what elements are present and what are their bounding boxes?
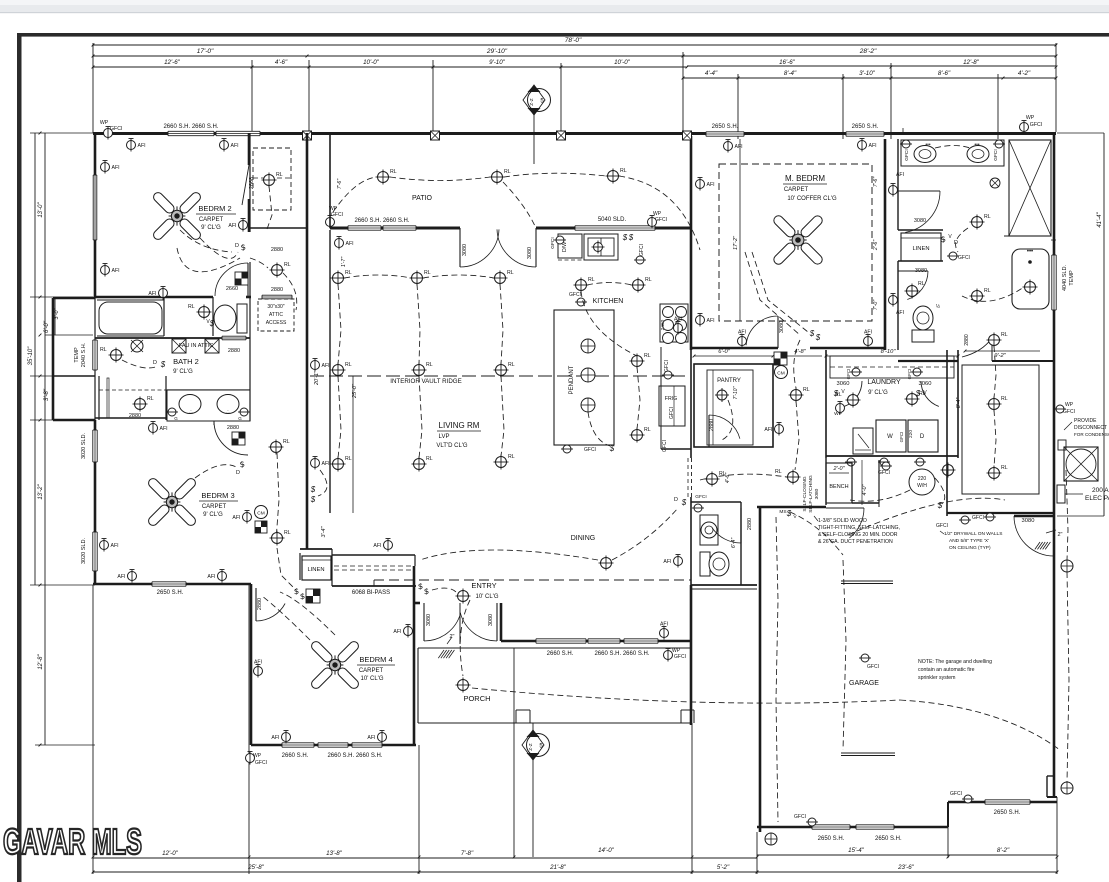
- svg-text:GFCI: GFCI: [569, 292, 581, 298]
- svg-text:17'-0": 17'-0": [197, 48, 214, 55]
- svg-text:BEDRM 2: BEDRM 2: [198, 204, 231, 213]
- svg-text:RL: RL: [504, 169, 511, 175]
- svg-text:GFCI: GFCI: [639, 244, 645, 256]
- svg-text:$: $: [622, 233, 628, 242]
- svg-text:$: $: [937, 501, 943, 510]
- svg-text:AFI: AFI: [232, 515, 240, 521]
- svg-text:RL: RL: [276, 172, 283, 178]
- svg-text:21'-8": 21'-8": [549, 864, 567, 871]
- svg-text:GFCI: GFCI: [255, 760, 267, 766]
- svg-text:3080: 3080: [1022, 518, 1035, 524]
- svg-text:AFI: AFI: [228, 223, 236, 229]
- svg-text:4'-0": 4'-0": [862, 483, 868, 495]
- svg-text:6068 BI-PASS: 6068 BI-PASS: [352, 590, 390, 596]
- svg-text:AFI: AFI: [322, 363, 330, 369]
- svg-text:ATTIC: ATTIC: [269, 312, 283, 318]
- svg-text:2650 S.H.: 2650 S.H.: [994, 810, 1021, 816]
- svg-text:10'-0": 10'-0": [614, 59, 631, 66]
- svg-text:•••: •••: [1027, 249, 1033, 255]
- svg-text:RL: RL: [390, 169, 397, 175]
- svg-text:$: $: [786, 509, 792, 518]
- svg-text:10' CL'G: 10' CL'G: [361, 676, 384, 682]
- svg-text:4'-4": 4'-4": [705, 70, 718, 77]
- svg-text:$: $: [809, 329, 815, 338]
- svg-text:∴: ∴: [226, 409, 229, 415]
- svg-text:5'-2": 5'-2": [717, 864, 730, 871]
- svg-text:20'-1": 20'-1": [314, 370, 320, 386]
- svg-text:5040 SLD.: 5040 SLD.: [598, 217, 627, 223]
- svg-text:2660 S.H. 2660 S.H.: 2660 S.H. 2660 S.H.: [594, 651, 649, 657]
- svg-text:2660 S.H.: 2660 S.H.: [547, 651, 574, 657]
- svg-text:INTERIOR VAULT RIDGE: INTERIOR VAULT RIDGE: [390, 378, 462, 385]
- svg-text:AFI: AFI: [148, 291, 156, 297]
- svg-text:30"x30": 30"x30": [267, 304, 284, 310]
- svg-text:•••: •••: [974, 142, 980, 148]
- svg-text:RL: RL: [918, 281, 925, 287]
- svg-text:RL: RL: [984, 214, 991, 220]
- svg-text:3080: 3080: [779, 321, 785, 333]
- svg-text:D: D: [920, 434, 925, 440]
- svg-text:2880: 2880: [257, 598, 263, 610]
- svg-text:7'-6": 7'-6": [337, 178, 343, 189]
- svg-text:3020 SLD.: 3020 SLD.: [81, 433, 87, 459]
- svg-text:RL: RL: [1001, 396, 1008, 402]
- svg-text:7'-0": 7'-0": [873, 299, 879, 310]
- svg-text:2880: 2880: [271, 247, 283, 253]
- svg-text:& SELF-CLOSING 20 MIN. DOOR: & SELF-CLOSING 20 MIN. DOOR: [818, 532, 898, 538]
- svg-text:RL: RL: [984, 288, 991, 294]
- svg-text:•••: •••: [925, 142, 931, 148]
- svg-text:13'-0": 13'-0": [38, 201, 44, 217]
- svg-text:CARPET: CARPET: [199, 217, 224, 223]
- svg-text:NOTE: The garage and dwelling: NOTE: The garage and dwelling: [918, 659, 992, 665]
- svg-text:9'-2": 9'-2": [994, 353, 1006, 359]
- svg-text:$: $: [160, 360, 166, 369]
- svg-text:VLT'D CL'G: VLT'D CL'G: [436, 443, 468, 449]
- svg-text:PANTRY: PANTRY: [717, 378, 741, 384]
- svg-text:2880: 2880: [228, 348, 240, 354]
- svg-text:GFCI: GFCI: [899, 432, 904, 443]
- svg-text:RL: RL: [588, 277, 595, 283]
- svg-text:14'-0": 14'-0": [598, 847, 615, 854]
- svg-text:2": 2": [1057, 532, 1062, 538]
- svg-text:RL: RL: [508, 362, 515, 368]
- svg-text:3080: 3080: [814, 488, 820, 499]
- svg-text:G: G: [238, 416, 242, 421]
- svg-text:9' CL'G: 9' CL'G: [173, 369, 193, 375]
- svg-text:2880: 2880: [129, 413, 141, 419]
- svg-text:17'-2": 17'-2": [733, 235, 739, 250]
- svg-text:AFI: AFI: [373, 543, 381, 549]
- svg-text:16'-6": 16'-6": [779, 59, 796, 66]
- svg-text:2660 S.H. 2660 S.H.: 2660 S.H. 2660 S.H.: [354, 218, 409, 224]
- svg-text:RL: RL: [426, 362, 433, 368]
- svg-text:15'-4": 15'-4": [848, 847, 865, 854]
- svg-text:PROVIDE: PROVIDE: [1074, 418, 1097, 424]
- svg-text:AFI: AFI: [207, 574, 215, 580]
- svg-text:2650 S.H.: 2650 S.H.: [852, 124, 879, 130]
- svg-text:GFCI: GFCI: [331, 212, 343, 218]
- svg-text:GFCI: GFCI: [110, 126, 122, 132]
- svg-text:TEMP: TEMP: [1069, 270, 1075, 286]
- svg-text:KITCHEN: KITCHEN: [593, 298, 624, 305]
- svg-text:CARPET: CARPET: [359, 668, 384, 674]
- svg-text:RL: RL: [424, 270, 431, 276]
- svg-text:10' COFFER CL'G: 10' COFFER CL'G: [787, 196, 837, 202]
- svg-text:$: $: [628, 233, 634, 242]
- svg-text:AFI: AFI: [271, 735, 279, 741]
- svg-text:WP: WP: [1026, 115, 1035, 121]
- svg-text:4040 SLD.: 4040 SLD.: [1062, 265, 1068, 291]
- svg-text:RL: RL: [1001, 465, 1008, 471]
- svg-text:2660 S.H. 2660 S.H.: 2660 S.H. 2660 S.H.: [327, 753, 382, 759]
- svg-text:2660 S.H. 2660 S.H.: 2660 S.H. 2660 S.H.: [163, 124, 218, 130]
- svg-text:W: W: [887, 434, 893, 440]
- svg-text:RL: RL: [508, 454, 515, 460]
- svg-text:AFI: AFI: [112, 268, 120, 274]
- svg-text:BEDRM 3: BEDRM 3: [201, 491, 234, 500]
- svg-text:BATH 2: BATH 2: [173, 357, 199, 366]
- svg-text:3060: 3060: [919, 381, 932, 387]
- svg-text:2650 S.H.: 2650 S.H.: [157, 590, 184, 596]
- svg-text:D: D: [236, 470, 240, 476]
- svg-text:MS: MS: [779, 509, 786, 515]
- svg-text:FAU IN ATTIC: FAU IN ATTIC: [179, 343, 213, 349]
- svg-text:AFI: AFI: [117, 574, 125, 580]
- svg-text:D: D: [674, 497, 678, 503]
- svg-text:RL: RL: [426, 456, 433, 462]
- svg-text:AFI: AFI: [864, 330, 872, 336]
- svg-text:AFI: AFI: [346, 241, 354, 247]
- svg-text:7'-6": 7'-6": [873, 176, 879, 187]
- svg-text:3060: 3060: [837, 381, 850, 387]
- svg-text:GFCI: GFCI: [972, 515, 984, 521]
- svg-text:RL: RL: [345, 456, 352, 462]
- svg-text:$: $: [681, 498, 687, 507]
- svg-text:PORCH: PORCH: [463, 694, 490, 703]
- svg-text:12'-0": 12'-0": [162, 850, 179, 857]
- svg-text:PENDANT: PENDANT: [569, 365, 575, 394]
- svg-text:AFI: AFI: [322, 461, 330, 467]
- svg-text:6'-4": 6'-4": [731, 537, 737, 548]
- svg-text:BEDRM 4: BEDRM 4: [359, 655, 392, 664]
- svg-text:1/2" DRYWALL ON WALLS: 1/2" DRYWALL ON WALLS: [944, 531, 1002, 537]
- svg-text:GFCI: GFCI: [794, 814, 806, 820]
- svg-text:Z-Z: Z-Z: [528, 743, 534, 751]
- svg-text:contain an automatic fire: contain an automatic fire: [918, 667, 975, 673]
- svg-text:& 26 GA. DUCT PENETRATION: & 26 GA. DUCT PENETRATION: [818, 539, 893, 545]
- svg-text:AFI: AFI: [764, 427, 772, 433]
- svg-text:LIVING RM: LIVING RM: [439, 421, 480, 430]
- svg-text:3080: 3080: [527, 247, 533, 259]
- svg-text:RL: RL: [1001, 332, 1008, 338]
- svg-text:13'-8": 13'-8": [326, 850, 343, 857]
- svg-text:$: $: [209, 319, 215, 328]
- svg-text:$: $: [915, 389, 921, 398]
- svg-text:AFI: AFI: [231, 143, 239, 149]
- svg-text:AFI: AFI: [869, 143, 877, 149]
- svg-text:3'-10": 3'-10": [859, 70, 876, 77]
- svg-text:7'-8": 7'-8": [461, 850, 474, 857]
- svg-text:3080: 3080: [462, 244, 468, 256]
- svg-text:RL: RL: [507, 270, 514, 276]
- svg-text:2'-6": 2'-6": [873, 239, 879, 251]
- svg-text:12'-6": 12'-6": [164, 59, 181, 66]
- svg-text:10'-0": 10'-0": [363, 59, 380, 66]
- svg-text:GFCI: GFCI: [846, 369, 851, 380]
- svg-text:3020 SLD.: 3020 SLD.: [81, 538, 87, 564]
- svg-text:GFCI: GFCI: [664, 360, 670, 372]
- svg-text:10' CL'G: 10' CL'G: [476, 594, 499, 600]
- svg-text:9' CL'G: 9' CL'G: [868, 390, 888, 396]
- svg-text:6'-0": 6'-0": [44, 320, 50, 333]
- svg-text:8'-2": 8'-2": [997, 847, 1010, 854]
- svg-text:$: $: [310, 495, 316, 504]
- svg-text:4'-6": 4'-6": [275, 59, 288, 66]
- svg-text:9' CL'G: 9' CL'G: [201, 225, 221, 231]
- svg-text:M. BEDRM: M. BEDRM: [785, 174, 825, 183]
- svg-text:41'-4": 41'-4": [1097, 211, 1103, 227]
- svg-text:∴: ∴: [189, 409, 192, 415]
- svg-text:GFCI: GFCI: [867, 664, 879, 670]
- svg-text:RL: RL: [284, 530, 291, 536]
- svg-text:8'-6": 8'-6": [938, 70, 951, 77]
- svg-text:AFI: AFI: [896, 310, 904, 316]
- svg-text:DISCONNECT: DISCONNECT: [1074, 425, 1107, 431]
- svg-text:GFCI: GFCI: [550, 237, 556, 248]
- svg-text:2650 S.H.: 2650 S.H.: [875, 836, 902, 842]
- svg-text:AFI: AFI: [111, 543, 119, 549]
- svg-text:7'-10": 7'-10": [733, 386, 739, 399]
- svg-text:13'-2": 13'-2": [38, 483, 44, 499]
- svg-text:AFI: AFI: [367, 735, 375, 741]
- svg-text:28'-2": 28'-2": [859, 48, 877, 55]
- svg-text:ON CEILING (TYP): ON CEILING (TYP): [949, 545, 991, 551]
- svg-text:AFI: AFI: [112, 165, 120, 171]
- svg-text:RL: RL: [100, 347, 107, 353]
- svg-text:3'-8": 3'-8": [44, 388, 50, 401]
- svg-text:35'-10": 35'-10": [28, 346, 34, 365]
- svg-text:LINEN: LINEN: [912, 246, 929, 252]
- svg-text:GFCI: GFCI: [878, 470, 890, 476]
- svg-text:AFI: AFI: [160, 426, 168, 432]
- svg-text:$: $: [310, 485, 316, 494]
- svg-text:1-3/8" SOLID WOOD: 1-3/8" SOLID WOOD: [818, 518, 867, 524]
- svg-text:2660: 2660: [226, 286, 238, 292]
- svg-text:AFI: AFI: [660, 622, 668, 628]
- svg-text:9' CL'G: 9' CL'G: [203, 512, 223, 518]
- svg-text:2660 S.H.: 2660 S.H.: [282, 753, 309, 759]
- svg-text:D: D: [153, 360, 157, 366]
- svg-text:W/H: W/H: [917, 483, 927, 489]
- svg-text:GFCI: GFCI: [993, 149, 999, 160]
- svg-text:29'-10": 29'-10": [486, 48, 508, 55]
- svg-text:FRIG: FRIG: [665, 396, 677, 402]
- svg-text:2880: 2880: [964, 334, 970, 346]
- svg-text:AND 5/8" TYPE 'X': AND 5/8" TYPE 'X': [949, 538, 989, 544]
- svg-text:GFCI: GFCI: [584, 447, 596, 453]
- svg-text:200 A: 200 A: [1092, 487, 1109, 494]
- svg-text:2880: 2880: [227, 425, 239, 431]
- svg-text:2460: 2460: [660, 319, 666, 330]
- svg-text:D: D: [235, 243, 239, 249]
- svg-text:AFI: AFI: [138, 143, 146, 149]
- svg-text:$: $: [815, 333, 821, 342]
- svg-text:Z-Z: Z-Z: [529, 98, 535, 106]
- svg-text:2880: 2880: [709, 419, 715, 431]
- svg-text:RL: RL: [803, 387, 810, 393]
- svg-text:AFI: AFI: [674, 317, 682, 323]
- svg-text:3080: 3080: [426, 614, 432, 626]
- svg-text:8'-10": 8'-10": [881, 349, 897, 355]
- svg-text:GFCI: GFCI: [904, 149, 910, 160]
- svg-text:AFI: AFI: [738, 330, 746, 336]
- svg-text:25'-8": 25'-8": [247, 864, 265, 871]
- svg-text:23'-6": 23'-6": [897, 864, 915, 871]
- svg-text:2880: 2880: [747, 518, 753, 530]
- svg-text:GFCI: GFCI: [1030, 122, 1042, 128]
- svg-text:FOR CONDENSOR: FOR CONDENSOR: [1074, 432, 1109, 437]
- svg-text:RL: RL: [620, 168, 627, 174]
- svg-text:CARPET: CARPET: [784, 187, 809, 193]
- svg-text:$: $: [609, 444, 615, 453]
- svg-text:GFCI: GFCI: [936, 523, 948, 529]
- svg-text:GARAGE: GARAGE: [849, 680, 879, 687]
- svg-text:8'-4": 8'-4": [784, 70, 797, 77]
- svg-text:GFCI: GFCI: [907, 369, 912, 380]
- svg-text:LVP: LVP: [439, 434, 450, 440]
- svg-text:AFI: AFI: [254, 660, 262, 666]
- svg-text:GFCI: GFCI: [950, 791, 962, 797]
- svg-text:GFCI: GFCI: [674, 654, 686, 660]
- svg-text:GFCI: GFCI: [958, 255, 970, 261]
- svg-text:AFI: AFI: [663, 559, 671, 565]
- svg-text:GFCI: GFCI: [695, 494, 706, 500]
- svg-text:CM: CM: [777, 371, 784, 377]
- svg-text:TEMP: TEMP: [74, 347, 80, 363]
- svg-text:4'-2": 4'-2": [1018, 70, 1031, 77]
- svg-text:3'-0": 3'-0": [54, 307, 60, 319]
- svg-text:AFI: AFI: [707, 318, 715, 324]
- svg-text:2'-0": 2'-0": [833, 466, 846, 472]
- svg-text:12'-8": 12'-8": [963, 59, 980, 66]
- svg-text:ELEC PAN: ELEC PAN: [1085, 495, 1109, 502]
- svg-text:RL: RL: [644, 427, 651, 433]
- svg-text:LAUNDRY: LAUNDRY: [867, 379, 901, 386]
- svg-text:8'-4": 8'-4": [956, 397, 962, 408]
- svg-text:78'-0": 78'-0": [565, 37, 582, 44]
- svg-text:2040 S.H.: 2040 S.H.: [81, 342, 87, 367]
- svg-text:RL: RL: [147, 396, 154, 402]
- svg-text:RL: RL: [775, 469, 782, 475]
- svg-text:2880: 2880: [271, 287, 283, 293]
- svg-text:3'-4": 3'-4": [321, 525, 327, 537]
- svg-text:ACCESS: ACCESS: [266, 320, 287, 326]
- svg-text:RL: RL: [284, 262, 291, 268]
- svg-text:BENCH: BENCH: [829, 484, 848, 490]
- svg-text:2650 S.H.: 2650 S.H.: [712, 124, 739, 130]
- svg-text:1'-7": 1'-7": [341, 256, 347, 267]
- svg-text:RL: RL: [283, 439, 290, 445]
- svg-text:GFCI: GFCI: [662, 440, 668, 452]
- svg-text:RL: RL: [345, 270, 352, 276]
- svg-text:AFI: AFI: [393, 629, 401, 635]
- svg-text:WP: WP: [100, 120, 109, 126]
- svg-text:6'-0": 6'-0": [718, 349, 730, 355]
- svg-text:220: 220: [918, 476, 927, 482]
- svg-text:220: 220: [908, 430, 914, 438]
- svg-text:RL: RL: [345, 362, 352, 368]
- svg-text:RL: RL: [644, 353, 651, 359]
- svg-text:LINEN: LINEN: [307, 567, 324, 573]
- svg-text:AFI: AFI: [707, 182, 715, 188]
- svg-text:9'-10": 9'-10": [489, 59, 506, 66]
- svg-text:PATIO: PATIO: [412, 195, 433, 202]
- svg-text:G: G: [174, 416, 178, 421]
- svg-text:RL: RL: [645, 277, 652, 283]
- svg-text:3080: 3080: [914, 218, 926, 224]
- svg-text:DINING: DINING: [571, 535, 596, 542]
- svg-text:RL: RL: [188, 304, 195, 310]
- svg-text:sprinkler system: sprinkler system: [918, 675, 955, 681]
- svg-text:ENTRY: ENTRY: [471, 581, 496, 590]
- svg-text:4'-6": 4'-6": [725, 472, 731, 483]
- svg-text:2650 S.H.: 2650 S.H.: [818, 836, 845, 842]
- svg-text:CM: CM: [257, 511, 264, 517]
- svg-text:AFI: AFI: [896, 172, 904, 178]
- svg-text:3080: 3080: [488, 614, 494, 626]
- svg-text:$: $: [833, 389, 839, 398]
- svg-text:WP: WP: [1065, 402, 1074, 408]
- svg-text:GFCI: GFCI: [1063, 409, 1075, 415]
- svg-text:CARPET: CARPET: [202, 504, 227, 510]
- svg-text:12'-8": 12'-8": [38, 653, 44, 669]
- svg-text:AFI: AFI: [735, 144, 743, 150]
